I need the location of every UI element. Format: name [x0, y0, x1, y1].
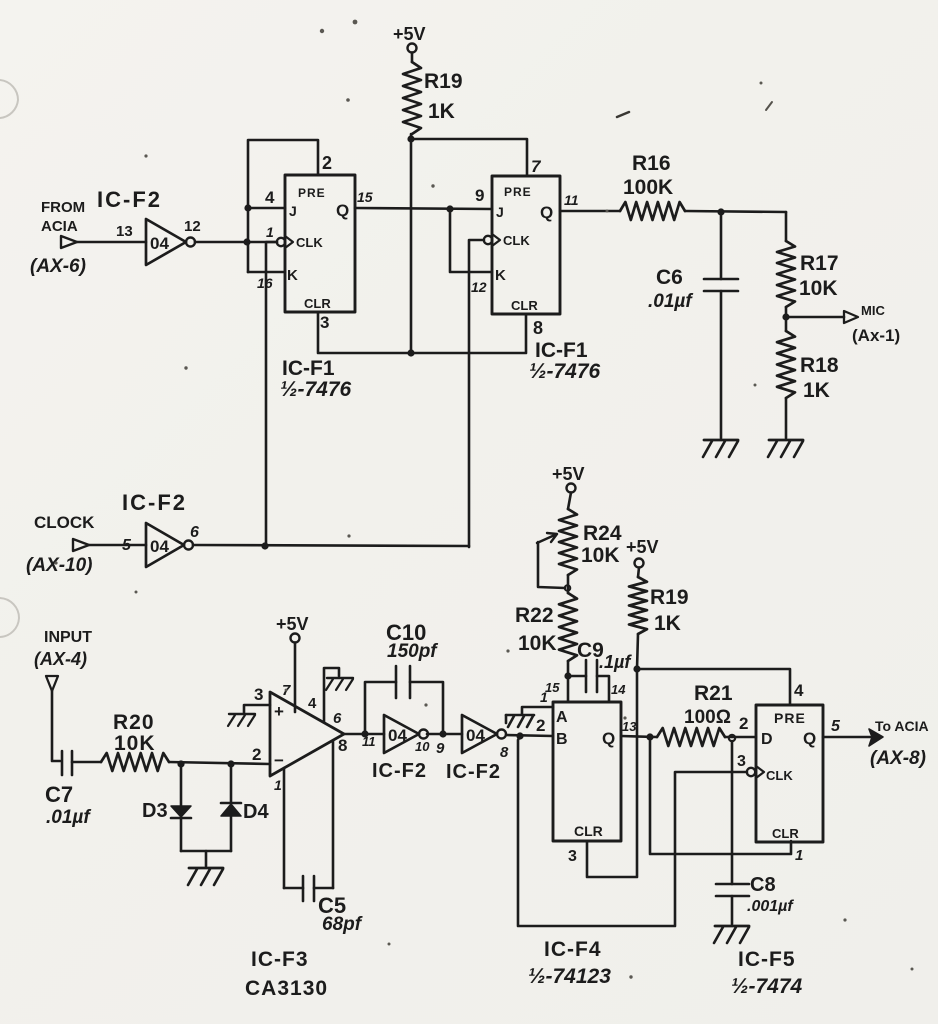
- svg-text:R20: R20: [113, 711, 155, 734]
- svg-text:IC-F2: IC-F2: [97, 187, 162, 212]
- svg-text:C8: C8: [750, 874, 776, 896]
- svg-text:CLR: CLR: [574, 823, 603, 839]
- one-shot U IC-F4 (1/2-74123) body: [553, 702, 621, 841]
- svg-text:K: K: [287, 267, 298, 284]
- svg-text:6: 6: [190, 524, 199, 541]
- wire IC-F1b J-K tie: [450, 209, 492, 295]
- svg-text:+5V: +5V: [276, 614, 309, 634]
- svg-text:+5V: +5V: [393, 24, 426, 44]
- svg-text:1: 1: [266, 224, 274, 240]
- hatch tie symbol (IC-F4 pin 1): [506, 715, 534, 727]
- svg-text:10K: 10K: [518, 632, 557, 655]
- svg-text:PRE: PRE: [298, 186, 326, 200]
- svg-text:MIC: MIC: [861, 303, 885, 318]
- wire R19b node down to IC-F4 CLR (pin 3): [568, 669, 637, 877]
- svg-text:½-7474: ½-7474: [731, 975, 803, 998]
- svg-text:8: 8: [500, 744, 509, 761]
- svg-text:.001µf: .001µf: [747, 898, 794, 915]
- svg-text:B: B: [556, 731, 568, 748]
- label IC-F2 (third inverter): [372, 760, 427, 782]
- svg-text:2: 2: [322, 153, 332, 173]
- svg-text:½-7476: ½-7476: [280, 378, 352, 401]
- svg-text:8: 8: [338, 736, 347, 755]
- resistor R20 (10K): [101, 711, 169, 771]
- wire R22 to IC-F4 pin 15 riser: [545, 672, 572, 702]
- resistor R22 (10K): [515, 575, 577, 675]
- svg-text:10: 10: [415, 739, 430, 754]
- svg-text:IC-F4: IC-F4: [544, 938, 602, 961]
- svg-text:−: −: [274, 751, 284, 770]
- svg-text:CLK: CLK: [296, 235, 323, 250]
- svg-text:.1µf: .1µf: [599, 652, 632, 672]
- wire inverter output to IC-F4 B (pin 2): [506, 716, 553, 740]
- svg-text:IC-F3: IC-F3: [251, 948, 309, 971]
- svg-text:ACIA: ACIA: [41, 218, 78, 235]
- label IC-F3 CA3130: [245, 948, 328, 1000]
- ground (op-amp pin 3): [228, 714, 255, 726]
- svg-text:CLK: CLK: [503, 233, 530, 248]
- wire op-amp pin 8 to C5: [333, 736, 347, 888]
- svg-text:1K: 1K: [428, 100, 455, 123]
- svg-text:150pf: 150pf: [387, 641, 438, 662]
- svg-text:4: 4: [794, 681, 804, 700]
- power +5V terminal (R24 top): [552, 464, 585, 509]
- svg-text:R18: R18: [800, 354, 839, 377]
- svg-text:04: 04: [150, 537, 169, 556]
- svg-text:J: J: [289, 203, 297, 219]
- svg-text:Q: Q: [602, 729, 615, 748]
- label IC-F2 (clock inverter): [122, 490, 187, 515]
- resistor R16 (100K): [620, 152, 685, 220]
- wire R19 node to IC-F1(b) PRE pin 7: [411, 139, 542, 176]
- ground (op-amp pin 4): [326, 678, 353, 690]
- flip-flop U IC-F5 (1/2-7474) body: [756, 705, 823, 842]
- svg-text:INPUT: INPUT: [44, 629, 92, 646]
- IC-F1b CLK bubble and clock feed: [469, 236, 492, 547]
- label IC-F5 1/2-7474: [731, 948, 803, 998]
- resistor R17 (10K): [777, 212, 839, 317]
- svg-text:Q: Q: [540, 203, 553, 222]
- trimpot wiper arrow and bracket (R24): [537, 533, 570, 591]
- wire R16 to C6/R17 node: [685, 208, 786, 215]
- svg-text:68pf: 68pf: [322, 914, 363, 935]
- svg-text:+: +: [274, 702, 284, 721]
- svg-text:J: J: [496, 204, 504, 220]
- svg-text:12: 12: [471, 279, 487, 295]
- IC-F1a CLK bubble: [277, 238, 285, 246]
- svg-text:(AX-10): (AX-10): [26, 555, 93, 576]
- svg-text:R19: R19: [650, 586, 689, 609]
- svg-text:04: 04: [150, 234, 169, 253]
- svg-text:15: 15: [357, 189, 373, 205]
- diode D4: [221, 764, 269, 851]
- svg-text:CLR: CLR: [304, 296, 331, 311]
- wire inverter output to IC-F1a CLK node: [195, 238, 277, 245]
- svg-text:9: 9: [475, 186, 484, 205]
- svg-text:1: 1: [795, 847, 803, 864]
- wire op-amp pin 1 to C5: [274, 768, 284, 888]
- svg-text:(Ax-1): (Ax-1): [852, 326, 900, 345]
- flip-flop U IC-F1b (1/2-7476) body: [492, 176, 560, 314]
- wire op-amp output (pin 6): [333, 710, 384, 749]
- label IC-F2 (fourth inverter): [446, 761, 501, 783]
- svg-text:IC-F5: IC-F5: [738, 948, 796, 971]
- svg-text:3: 3: [568, 848, 577, 865]
- ground (C8): [714, 926, 749, 943]
- svg-text:1: 1: [540, 689, 548, 705]
- power +5V terminal (top, feeds R19): [393, 24, 426, 62]
- wire IC-F4 A (pin 1) to hatch tie: [522, 689, 553, 714]
- capacitor C5 (68pf): [284, 876, 363, 935]
- svg-text:(AX-6): (AX-6): [30, 256, 86, 277]
- label IC-F1a 1/2-7476: [280, 357, 352, 401]
- wire op-amp pin 4 to hatch ground: [308, 668, 339, 722]
- svg-text:R21: R21: [694, 682, 733, 705]
- resistor R24 (10K trimpot): [559, 509, 622, 575]
- power +5V terminal (R19b top): [626, 537, 659, 577]
- input terminal FROM ACIA (AX-6): [30, 199, 146, 277]
- svg-text:D: D: [761, 731, 773, 748]
- svg-text:R16: R16: [632, 152, 671, 175]
- resistor R21 (100Ω): [657, 682, 756, 746]
- svg-text:13: 13: [116, 223, 133, 240]
- svg-text:IC-F2: IC-F2: [372, 760, 427, 782]
- svg-text:1K: 1K: [654, 612, 681, 635]
- wire R19 node down to CLR bus: [407, 134, 414, 357]
- wire IC-F1(a) J to PRE pin 2 loop: [248, 140, 332, 208]
- svg-text:½-74123: ½-74123: [528, 965, 611, 988]
- svg-text:9: 9: [436, 740, 445, 757]
- svg-text:A: A: [556, 709, 568, 726]
- svg-text:3: 3: [254, 685, 263, 704]
- resistor R19 (1K, top pull-up): [403, 62, 463, 134]
- svg-text:D3: D3: [142, 800, 168, 822]
- capacitor C7 (.01uf): [45, 751, 101, 828]
- wire op-amp pin 3 to hatch ground: [244, 685, 270, 713]
- svg-text:12: 12: [184, 218, 201, 235]
- svg-text:1: 1: [274, 777, 282, 793]
- output terminal To ACIA (AX-8): [823, 718, 929, 769]
- svg-text:10K: 10K: [114, 732, 156, 755]
- svg-text:R17: R17: [800, 252, 839, 275]
- wire inverter to inverter: [427, 734, 462, 757]
- svg-text:4: 4: [308, 695, 317, 712]
- wire CLR bus (pins 3 and 8): [318, 312, 543, 353]
- svg-text:To ACIA: To ACIA: [875, 718, 929, 734]
- svg-text:CLR: CLR: [772, 826, 799, 841]
- input terminal INPUT (AX-4): [34, 629, 92, 761]
- svg-text:R22: R22: [515, 604, 554, 627]
- svg-text:IC-F1: IC-F1: [282, 357, 335, 380]
- svg-text:04: 04: [466, 726, 485, 745]
- svg-text:11: 11: [362, 734, 376, 749]
- flip-flop U IC-F1a (1/2-7476) body: [285, 175, 355, 312]
- ground (C6): [703, 440, 738, 457]
- svg-text:K: K: [495, 267, 506, 284]
- output terminal MIC (AX-1): [782, 303, 900, 345]
- wire clock bus to both flip-flop CLK lines: [193, 542, 469, 549]
- label IC-F2 (first inverter): [97, 187, 162, 212]
- svg-text:13: 13: [622, 719, 637, 734]
- svg-text:10K: 10K: [581, 544, 620, 567]
- capacitor C10 (150pf): [365, 620, 447, 738]
- svg-text:.01µf: .01µf: [46, 807, 91, 828]
- svg-text:+5V: +5V: [552, 464, 585, 484]
- svg-text:11: 11: [564, 192, 579, 208]
- wire R20 to op-amp inverting input (pin 2): [169, 745, 270, 768]
- svg-text:7: 7: [531, 157, 542, 176]
- input terminal CLOCK (AX-10): [26, 513, 146, 576]
- capacitor C9 (.1uf): [568, 639, 632, 702]
- svg-text:CLOCK: CLOCK: [34, 513, 95, 532]
- pin labels IC-F1a (4,1,16,3,15): [257, 188, 373, 332]
- svg-text:IC-F2: IC-F2: [122, 490, 187, 515]
- inverter U IC-F2a (04) pins 13-12: [116, 218, 201, 265]
- svg-text:2: 2: [739, 714, 748, 733]
- svg-text:100K: 100K: [623, 176, 673, 199]
- capacitor C8 (.001uf): [716, 741, 794, 924]
- svg-text:CLR: CLR: [511, 298, 538, 313]
- svg-text:(AX-8): (AX-8): [870, 748, 926, 769]
- ground (diodes D3 D4): [188, 868, 223, 885]
- svg-text:½-7476: ½-7476: [529, 360, 601, 383]
- svg-text:IC-F1: IC-F1: [535, 339, 588, 362]
- svg-text:CLK: CLK: [766, 768, 793, 783]
- diode D3: [142, 764, 191, 851]
- svg-text:5: 5: [831, 718, 841, 735]
- svg-text:14: 14: [611, 682, 626, 697]
- svg-text:3: 3: [320, 313, 329, 332]
- svg-text:3: 3: [737, 753, 746, 770]
- IC-F5 CLK bubble: [747, 768, 755, 776]
- inverter U IC-F2b (04) pins 5-6: [122, 523, 199, 567]
- svg-text:2: 2: [536, 716, 545, 735]
- op-amp U IC-F3 (CA3130) triangle: [270, 692, 344, 776]
- label IC-F1b 1/2-7476: [529, 339, 601, 383]
- svg-text:(AX-4): (AX-4): [34, 649, 87, 669]
- svg-text:PRE: PRE: [504, 185, 532, 199]
- svg-text:4: 4: [265, 188, 275, 207]
- svg-text:1K: 1K: [803, 379, 830, 402]
- svg-text:C6: C6: [656, 266, 683, 289]
- svg-text:D4: D4: [243, 801, 269, 823]
- capacitor C6 (.01uf): [648, 212, 738, 438]
- wire IC-F1a Q (pin 15) to IC-F1b J (pin 9): [355, 186, 492, 213]
- svg-text:5: 5: [122, 537, 132, 554]
- ground (R18): [768, 440, 803, 457]
- svg-text:R24: R24: [583, 522, 622, 545]
- svg-text:FROM: FROM: [41, 199, 85, 216]
- svg-text:Q: Q: [803, 729, 816, 748]
- node R21 to IC-F5 D (pin 2): [729, 714, 749, 741]
- inverter U IC-F2d (04) pins 9-8: [462, 715, 509, 761]
- svg-text:8: 8: [533, 318, 543, 338]
- svg-text:+5V: +5V: [626, 537, 659, 557]
- svg-text:10K: 10K: [799, 277, 838, 300]
- label IC-F4 1/2-74123: [528, 938, 611, 988]
- wire IC-F1a J-K tie: [244, 204, 285, 272]
- svg-text:CA3130: CA3130: [245, 977, 328, 1000]
- wire inverter-output node to IC-F5 CLK loop: [518, 736, 747, 926]
- power +5V terminal (op-amp pin 7): [276, 614, 309, 712]
- inverter U IC-F2c (04) pins 11-10: [384, 715, 430, 754]
- resistor R19b (1K): [629, 577, 689, 669]
- wire IC-F1a CLK down to clock bus: [266, 242, 277, 547]
- wire IC-F4 Q (pin 13) to R21: [621, 719, 657, 741]
- svg-text:100Ω: 100Ω: [684, 707, 731, 728]
- svg-text:R19: R19: [424, 70, 463, 93]
- svg-text:.01µf: .01µf: [648, 291, 693, 312]
- wire diode commons to ground: [181, 851, 231, 866]
- svg-text:6: 6: [333, 710, 342, 727]
- resistor R18 (1K): [777, 317, 839, 438]
- wire R19b node to IC-F5 PRE (pin 4): [633, 665, 804, 705]
- wire IC-F4 Q node to IC-F5 CLR (pin 1): [650, 737, 803, 864]
- svg-text:C7: C7: [45, 782, 73, 807]
- svg-text:IC-F2: IC-F2: [446, 761, 501, 783]
- svg-text:Q: Q: [336, 201, 349, 220]
- wire IC-F1b Q (pin 11) to R16: [560, 192, 620, 211]
- svg-text:04: 04: [388, 726, 407, 745]
- svg-text:PRE: PRE: [774, 710, 806, 726]
- svg-text:2: 2: [252, 745, 261, 764]
